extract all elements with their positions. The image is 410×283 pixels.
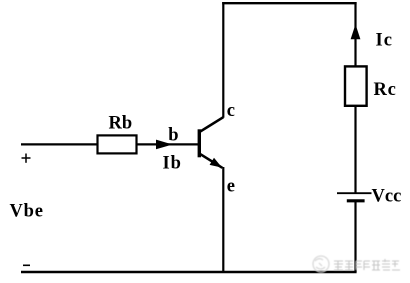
wire: input left horizontal — [21, 143, 97, 145]
transistor Q1 base bar — [198, 129, 201, 157]
node -: input negative terminal label — [23, 264, 30, 266]
battery Vcc negative plate (short thick) — [347, 199, 365, 202]
transistor Q1 collector lead — [200, 117, 224, 132]
svg-text:Ic: Ic — [376, 31, 393, 51]
resistor Rb — [98, 135, 137, 153]
svg-text:b: b — [168, 125, 178, 145]
node +: input positive terminal label — [22, 154, 31, 163]
wire: bottom horizontal — [21, 271, 357, 274]
wire: emitter vertical down — [222, 167, 224, 272]
wire: right vertical top (to Rc) — [354, 2, 356, 66]
transistor Q1 emitter lead — [200, 154, 223, 168]
svg-text:Vcc: Vcc — [372, 187, 402, 207]
wire: Rb to base — [137, 143, 199, 145]
svg-text:Vbe: Vbe — [10, 201, 44, 221]
watermark logo circle — [313, 256, 329, 272]
resistor Rc — [345, 66, 367, 105]
current arrow Ic — [351, 24, 361, 39]
svg-text:Rb: Rb — [109, 114, 133, 134]
wire: collector vertical up — [222, 2, 224, 118]
svg-text:e: e — [227, 177, 235, 197]
battery Vcc positive plate (long) — [337, 192, 372, 194]
watermark text (faint gray) — [334, 259, 400, 270]
current arrow Ib on base wire — [156, 140, 173, 150]
svg-text:Rc: Rc — [374, 80, 397, 100]
transistor Q1 emitter arrow — [210, 158, 222, 168]
wire: top horizontal — [222, 2, 356, 4]
svg-text:c: c — [227, 101, 235, 121]
wire: Rc to battery — [354, 106, 356, 193]
wire: battery to bottom — [354, 202, 356, 273]
svg-text:Ib: Ib — [163, 154, 182, 174]
